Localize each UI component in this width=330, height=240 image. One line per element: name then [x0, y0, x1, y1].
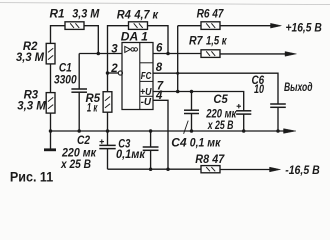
op-amp DA1 cell line 1 — [140, 62, 153, 64]
wire pin4 to rail B (crosses rail A) — [153, 100, 168, 169]
C4 leader line — [184, 121, 189, 134]
svg-text:R7: R7 — [189, 36, 203, 48]
resistor R5 — [103, 92, 112, 113]
wire pin7 to C5 — [153, 92, 244, 111]
op-amp DA1 divider — [139, 43, 141, 110]
terminal arrow output Выход — [284, 129, 297, 134]
node R3/rail A junction — [49, 129, 53, 133]
wire R7 to output arrow — [220, 53, 286, 55]
svg-text:3300: 3300 — [54, 74, 77, 86]
node C3/rail A junction — [149, 129, 153, 133]
terminal arrow R7 output — [285, 52, 297, 57]
wire R8 to -16,5V arrow — [220, 169, 270, 171]
svg-text:FC: FC — [141, 71, 152, 82]
resistor R4 — [129, 22, 148, 30]
svg-text:3,3 М: 3,3 М — [72, 8, 99, 20]
resistor R1 — [65, 22, 84, 30]
wire C6 bottom lead — [277, 107, 279, 131]
svg-text:R6: R6 — [197, 9, 211, 21]
svg-text:-16,5 В: -16,5 В — [285, 165, 320, 177]
svg-text:DA 1: DA 1 — [121, 31, 148, 43]
node pin7/R6 junction — [176, 90, 180, 94]
node pin4/rail B junction — [166, 167, 170, 171]
wire R4 left lead down to pin2 node (crosses pin3 wire) — [108, 26, 129, 73]
svg-text:220 мк: 220 мк — [61, 148, 97, 160]
svg-text:3,3 М: 3,3 М — [17, 101, 46, 113]
svg-text:Выход: Выход — [284, 82, 313, 94]
wire R2 to R3 — [50, 64, 52, 93]
wire C4 bottom lead — [191, 114, 193, 132]
svg-text:2: 2 — [110, 63, 118, 75]
polarity + of C2 — [100, 139, 104, 143]
wire C2 top lead — [107, 131, 109, 146]
wire R3 bottom to rail A and ground — [50, 113, 52, 149]
op-amp amplifier symbol — [125, 46, 138, 52]
wire pin8 to C6 — [153, 73, 278, 104]
svg-text:8: 8 — [156, 62, 163, 74]
op-amp DA1 box — [122, 43, 153, 110]
ground — [44, 148, 56, 151]
capacitor C3 — [143, 147, 159, 150]
wire R6 vertical to pins 7 and 8 — [177, 26, 179, 92]
capacitor C5 — [236, 111, 251, 114]
svg-text:1,5 к: 1,5 к — [206, 36, 227, 48]
svg-text:R1: R1 — [50, 8, 65, 20]
node C3/rail B junction — [149, 167, 153, 171]
decorative scan edge — [0, 3, 330, 5]
terminal arrow +16,5 V — [271, 23, 282, 28]
svg-text:4,7 к: 4,7 к — [134, 9, 160, 21]
node R4/R5/pin2 junction — [106, 71, 110, 75]
wire R4 right lead down to pin6 — [148, 26, 169, 54]
svg-text:1 к: 1 к — [87, 102, 98, 114]
polarity + of C5 — [237, 104, 241, 108]
wire pin3 — [79, 53, 122, 55]
node R4/pin6 junction — [166, 52, 170, 56]
resistor R7 — [201, 50, 220, 58]
wire C3 top lead — [150, 131, 152, 147]
wire C5 bottom lead — [243, 114, 245, 131]
wire R5 bottom lead — [107, 112, 109, 131]
resistor R8 — [201, 166, 220, 173]
wire C3 bottom lead — [150, 150, 152, 169]
svg-text:C5: C5 — [213, 94, 228, 106]
svg-text:0,1 мк: 0,1 мк — [190, 137, 222, 149]
svg-text:Рис. 11: Рис. 11 — [10, 169, 54, 184]
svg-text:+16,5 В: +16,5 В — [286, 22, 322, 34]
svg-text:47: 47 — [212, 9, 224, 21]
wire pin2 — [108, 72, 119, 74]
svg-text:220 мк: 220 мк — [205, 108, 237, 120]
wire rail A common — [51, 130, 285, 132]
wire R1 right lead down to pin3 node — [84, 26, 98, 54]
resistor R3 — [46, 93, 55, 114]
wire R6 to +16,5V arrow — [220, 25, 271, 27]
svg-text:C1: C1 — [59, 62, 72, 74]
wire pin6 to R7 — [153, 53, 201, 55]
svg-text:C2: C2 — [77, 135, 91, 147]
capacitor C4 — [184, 110, 199, 113]
wire C1 top lead — [78, 54, 80, 90]
op-amp DA1 cell line 3 — [140, 95, 153, 97]
resistor R6 — [201, 22, 220, 30]
wire R6 left lead — [178, 25, 201, 27]
svg-text:C4: C4 — [171, 137, 187, 149]
svg-text:47: 47 — [211, 154, 224, 166]
capacitor C1 — [71, 89, 87, 92]
node C6/rail A junction — [276, 129, 280, 133]
wire C4 top lead — [191, 92, 193, 111]
wire R5 top lead — [107, 73, 109, 92]
svg-text:3: 3 — [111, 43, 118, 55]
wire C1 bottom lead — [78, 92, 80, 131]
node R1/pin3 junction — [97, 52, 101, 56]
node R5/C2/rail A junction — [106, 129, 110, 133]
node C5/rail A junction — [242, 129, 246, 133]
svg-text:10: 10 — [254, 84, 264, 96]
svg-text:R8: R8 — [195, 154, 209, 166]
svg-text:6: 6 — [156, 42, 163, 54]
wire R1 left lead to R2 top — [51, 26, 66, 44]
wire rail B negative — [108, 168, 202, 170]
terminal arrow -16,5 V — [270, 167, 281, 172]
svg-text:x 25 В: x 25 В — [60, 159, 91, 171]
svg-text:x 25 В: x 25 В — [207, 120, 233, 132]
node C1/rail A junction — [77, 129, 81, 133]
svg-text:R4: R4 — [117, 9, 132, 21]
node C4/rail A junction — [190, 129, 194, 133]
svg-text:3,3 М: 3,3 М — [16, 52, 44, 64]
capacitor C6 — [270, 104, 286, 107]
capacitor C2 — [99, 145, 115, 148]
node pin8/R6 junction — [176, 72, 179, 75]
svg-text:0,1мк: 0,1мк — [116, 149, 146, 161]
resistor R2 — [46, 43, 55, 64]
svg-text:-U: -U — [141, 97, 152, 108]
wire C2 bottom lead to rail B — [107, 149, 109, 170]
node pin7/C4 junction — [190, 90, 194, 94]
op-amp DA1 cell line 2 — [140, 80, 153, 82]
pin2 inversion circle — [118, 71, 122, 75]
